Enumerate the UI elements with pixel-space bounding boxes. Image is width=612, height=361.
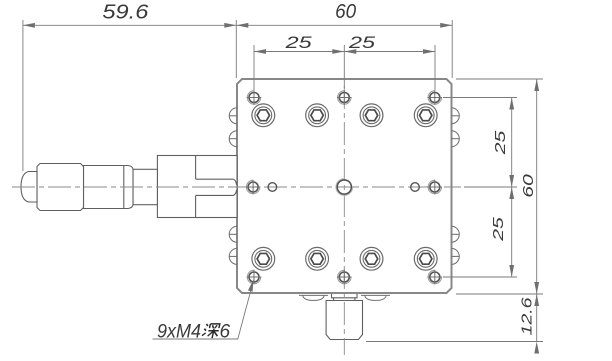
micrometer end cap	[21, 172, 37, 203]
svg-text:60: 60	[520, 173, 537, 197]
ext lines 25/25	[253, 45, 255, 90]
right inner ext lines	[443, 97, 517, 99]
screw B4	[414, 247, 437, 270]
M4 hole top-left	[247, 90, 262, 105]
M4 hole bottom-right	[428, 270, 443, 285]
M4 hole bottom-left	[247, 270, 262, 285]
right inner dim line	[511, 98, 513, 278]
svg-text:60: 60	[335, 1, 356, 23]
59.6/60 middle pair	[224, 23, 236, 28]
micrometer sleeve	[84, 166, 134, 209]
screw A1	[252, 104, 275, 127]
leader arrow	[248, 280, 254, 292]
screw A2	[306, 104, 329, 127]
micrometer bracket block	[157, 156, 237, 218]
small hole left	[268, 183, 277, 192]
svg-text:59.6: 59.6	[102, 2, 149, 24]
small hole right	[411, 183, 420, 192]
25/25 middle pair	[332, 49, 344, 54]
right 25 top	[509, 98, 514, 110]
right outer ext lines	[456, 78, 543, 80]
screw B1	[252, 247, 275, 270]
leader 9xM4	[153, 283, 253, 339]
svg-text:12.6: 12.6	[519, 297, 536, 336]
dim line 59.6 / 60	[23, 24, 452, 26]
M4 hole top-right	[428, 90, 443, 105]
M4 hole mid-right	[428, 180, 443, 195]
svg-text:6: 6	[220, 322, 231, 343]
25 left	[254, 49, 266, 54]
60 right	[440, 23, 452, 28]
right outer dim line	[536, 79, 538, 342]
arrowheads	[23, 23, 539, 354]
right 25 middle pair	[509, 175, 514, 187]
screw B2	[306, 247, 329, 270]
25 right	[423, 49, 435, 54]
center hole	[336, 179, 353, 196]
svg-text:25: 25	[348, 33, 376, 52]
knob body	[326, 301, 362, 340]
svg-text:25: 25	[490, 216, 507, 242]
dim line 25 25	[254, 51, 435, 53]
ext lines top	[22, 20, 24, 171]
60 bottom / 12.6 top pair	[534, 282, 539, 294]
M4 hole bottom-center	[337, 270, 352, 285]
right 25 bottom	[509, 265, 514, 277]
screw A3	[360, 104, 383, 127]
screw A4	[414, 104, 437, 127]
micrometer spindle (inside bracket)	[195, 156, 197, 180]
svg-text:25: 25	[492, 130, 509, 156]
59.6 left	[23, 23, 35, 28]
svg-text:9xM4: 9xM4	[157, 322, 201, 343]
micrometer thimble	[37, 164, 84, 211]
micrometer spindle shaft	[133, 169, 157, 204]
screw B3	[360, 247, 383, 270]
M4 hole top-center	[337, 90, 352, 105]
12.6 bottom	[534, 342, 539, 354]
knob neck	[332, 294, 358, 301]
60 top	[534, 79, 539, 91]
M4 hole mid-left	[246, 180, 261, 195]
svg-text:25: 25	[284, 33, 312, 52]
